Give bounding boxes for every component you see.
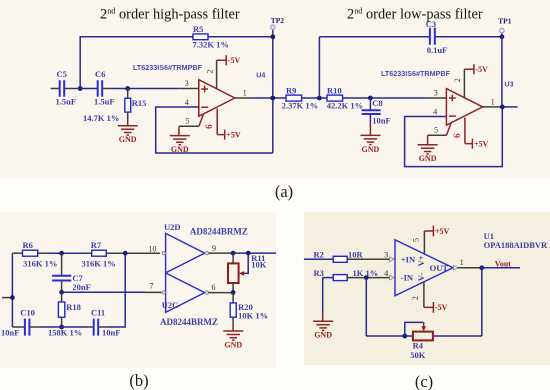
node junction R11 wiper — [246, 251, 251, 256]
ground U3 pin5 — [418, 145, 438, 163]
svg-text:316K 1%: 316K 1% — [82, 258, 116, 268]
ground R3 — [313, 321, 333, 339]
svg-text:10nF: 10nF — [372, 115, 390, 125]
node junction R11 top — [231, 251, 236, 256]
svg-text:AD8244BRMZ: AD8244BRMZ — [160, 317, 218, 327]
capacitor C6 — [98, 80, 103, 97]
svg-text:AD8244BRMZ: AD8244BRMZ — [190, 226, 248, 236]
pin circle U2D out — [205, 251, 208, 254]
node junction R4 wiper — [402, 334, 407, 339]
svg-text:5: 5 — [185, 116, 189, 125]
wire right vertical — [108, 253, 125, 327]
svg-text:10nF: 10nF — [1, 328, 19, 338]
svg-text:(c): (c) — [415, 372, 433, 390]
svg-text:10R: 10R — [348, 250, 364, 260]
svg-text:C3: C3 — [426, 19, 436, 29]
wire R3 to ground — [322, 278, 324, 314]
node junction U1 out — [479, 265, 484, 270]
svg-text:10: 10 — [149, 244, 157, 253]
svg-text:R6: R6 — [23, 240, 33, 250]
svg-text:-5V: -5V — [228, 56, 241, 65]
svg-text:158K 1%: 158K 1% — [48, 328, 82, 338]
svg-text:LT6233IS6#TRMPBF: LT6233IS6#TRMPBF — [133, 63, 203, 72]
capacitor C3 — [430, 28, 435, 45]
pin circle U2C out — [205, 291, 208, 294]
sheet background panel (c) — [304, 212, 550, 365]
svg-text:R9: R9 — [286, 85, 296, 95]
svg-text:+IN: +IN — [401, 254, 416, 264]
resistor R18 — [61, 292, 63, 302]
node junction U2C out — [231, 290, 236, 295]
ground R15 — [118, 126, 138, 144]
svg-text:7.32K 1%: 7.32K 1% — [193, 40, 229, 50]
potentiometer R11 — [232, 253, 234, 263]
svg-text:R5: R5 — [193, 24, 203, 34]
pin 1 output wire — [235, 97, 253, 99]
pin 5 stub — [199, 114, 204, 126]
svg-text:5: 5 — [411, 238, 420, 242]
svg-text:R3: R3 — [314, 268, 324, 278]
pin 2 stub U3 — [463, 69, 465, 97]
resistor R9 — [286, 95, 302, 101]
capacitor C11 — [87, 326, 93, 328]
svg-text:-5V: -5V — [476, 65, 489, 74]
wire R6-R7 — [47, 252, 85, 254]
svg-text:0.1uF: 0.1uF — [427, 45, 448, 55]
svg-text:(a): (a) — [275, 182, 293, 201]
svg-text:R2: R2 — [314, 250, 324, 260]
resistor R10 — [327, 95, 343, 101]
svg-text:+5V: +5V — [435, 227, 450, 236]
svg-text:2: 2 — [205, 70, 214, 74]
svg-text:OPA188AIDBVR: OPA188AIDBVR — [484, 240, 548, 250]
svg-text:7: 7 — [150, 282, 154, 291]
svg-text:6: 6 — [452, 133, 462, 138]
ground U4 pin5 — [170, 136, 190, 154]
PANEL B CONTENT — [1, 222, 276, 350]
svg-text:TP1: TP1 — [498, 16, 512, 25]
svg-text:LT6233IS6#TRMPBF: LT6233IS6#TRMPBF — [381, 69, 451, 78]
svg-text:5: 5 — [434, 125, 438, 134]
buffer U2C — [166, 273, 205, 313]
wire C6 to U4 — [111, 88, 180, 90]
svg-text:2.37K 1%: 2.37K 1% — [282, 100, 318, 110]
svg-text:6: 6 — [204, 124, 214, 129]
svg-text:1.5uF: 1.5uF — [56, 97, 77, 107]
svg-text:1.5uF: 1.5uF — [94, 97, 115, 107]
svg-text:-IN: -IN — [401, 273, 414, 283]
svg-text:+5V: +5V — [226, 130, 241, 139]
svg-text:V+: V+ — [416, 255, 426, 266]
svg-text:C10: C10 — [20, 307, 35, 317]
ground C8 — [360, 135, 380, 153]
wire output down — [481, 268, 483, 336]
svg-text:2nd order high-pass filter: 2nd order high-pass filter — [100, 6, 240, 22]
svg-text:42.2K 1%: 42.2K 1% — [327, 100, 363, 110]
svg-text:2: 2 — [453, 78, 462, 82]
wire top feedback HP — [80, 37, 273, 89]
wire Vout — [482, 267, 520, 269]
svg-text:4: 4 — [433, 107, 437, 116]
svg-text:316K 1%: 316K 1% — [23, 258, 57, 268]
node junction U3 out — [500, 105, 505, 110]
capacitor C8 — [369, 98, 371, 109]
svg-text:U2C: U2C — [162, 300, 179, 310]
pin 1 output wire U1 — [458, 267, 482, 269]
wire feedback bottom — [366, 335, 482, 337]
node junction C7 bottom — [59, 290, 64, 295]
wire R10 to U3 — [343, 97, 428, 99]
sheet background panel (b) — [0, 212, 276, 368]
svg-text:R7: R7 — [91, 240, 102, 250]
pin 5 stub U1 — [423, 231, 425, 254]
node junction LP feedback — [317, 96, 322, 101]
svg-text:10K 1%: 10K 1% — [238, 310, 268, 320]
svg-text:3: 3 — [185, 79, 189, 88]
potentiometer R4 — [413, 332, 433, 341]
pin circle U1 out — [454, 266, 459, 271]
svg-text:50K: 50K — [410, 350, 426, 360]
wire R18-C11 — [62, 326, 87, 328]
resistor R3 — [323, 277, 334, 279]
wire TP2 vertical — [272, 37, 274, 153]
pin 6 stub U3 — [464, 118, 466, 144]
node junction HP input — [78, 86, 83, 91]
op-amp U1 — [395, 240, 453, 296]
wire feedback left vertical — [365, 278, 367, 336]
wire LP feedback vertical — [318, 37, 320, 98]
resistor R6 — [12, 252, 22, 254]
svg-text:3: 3 — [384, 250, 388, 259]
power +5V U3 — [465, 139, 473, 149]
node junction right vertical top — [123, 251, 128, 256]
svg-text:1: 1 — [460, 258, 464, 267]
test point TP2 — [272, 29, 274, 36]
wire C10-R18 — [40, 326, 62, 328]
svg-text:14.7K 1%: 14.7K 1% — [83, 113, 119, 123]
svg-text:20nF: 20nF — [72, 282, 90, 292]
wire B input stub — [2, 297, 12, 299]
svg-text:4: 4 — [384, 269, 388, 278]
power +5V U1 — [424, 226, 433, 237]
pin 1 output wire U3 — [483, 106, 503, 108]
wire B left vertical — [11, 253, 13, 327]
node junction feedback tap — [364, 275, 369, 280]
resistor R20 — [232, 293, 234, 303]
svg-text:V-: V- — [416, 273, 426, 282]
test point TP1 — [501, 33, 503, 37]
power -5V U3 — [464, 64, 474, 74]
svg-text:C5: C5 — [57, 69, 67, 79]
svg-text:U4: U4 — [256, 71, 265, 80]
wire C5-C6 — [73, 88, 98, 90]
svg-text:TP2: TP2 — [271, 16, 285, 25]
capacitor C5 — [51, 88, 60, 90]
wire row2 to U2C — [62, 291, 145, 293]
svg-text:R15: R15 — [132, 98, 147, 108]
svg-text:10nF: 10nF — [102, 328, 120, 338]
svg-text:2nd order low-pass filter: 2nd order low-pass filter — [347, 6, 483, 22]
node junction R18 bottom — [59, 325, 64, 330]
svg-text:10K: 10K — [251, 260, 267, 270]
wire U2C out — [209, 292, 234, 294]
pin circle U2C in — [162, 291, 165, 294]
svg-text:1: 1 — [243, 88, 247, 97]
svg-text:+5V: +5V — [474, 139, 489, 148]
node junction TP1 — [500, 34, 505, 39]
power +5V U4 — [217, 130, 225, 140]
node junction C7 top — [59, 251, 64, 256]
resistor R5 — [193, 34, 208, 40]
pin circle U2D in — [162, 252, 165, 255]
wire U2D out — [209, 252, 234, 254]
resistor R2 — [304, 258, 333, 260]
svg-text:3: 3 — [434, 88, 438, 97]
svg-text:6: 6 — [212, 283, 216, 292]
wire TP1 vertical — [501, 37, 503, 107]
svg-text:Vout: Vout — [495, 259, 511, 268]
pin 2 stub U1 — [423, 282, 425, 308]
pin 2 stub — [216, 60, 218, 88]
pin circle U1 +in — [390, 257, 395, 262]
node junction C8 — [368, 96, 373, 101]
node junction B input — [10, 295, 15, 300]
svg-text:C11: C11 — [91, 307, 105, 317]
capacitor C7 — [61, 253, 63, 275]
svg-text:R18: R18 — [66, 302, 81, 312]
svg-text:OUT: OUT — [430, 263, 449, 273]
resistor R15 — [127, 89, 129, 99]
ground R20 — [223, 331, 243, 349]
node junction U4 out — [270, 96, 275, 101]
sheet background panel (a) — [0, 0, 550, 178]
svg-text:(b): (b) — [129, 371, 148, 390]
buffer U2D — [166, 233, 205, 273]
wire U3 feedback loop — [405, 107, 503, 167]
pin circle U1 -in — [390, 275, 395, 280]
pin 5 stub U3 — [447, 123, 452, 135]
svg-text:C6: C6 — [95, 69, 105, 79]
PANEL C CONTENT — [304, 226, 548, 360]
svg-text:C8: C8 — [372, 98, 382, 108]
svg-text:-5V: -5V — [435, 303, 448, 312]
node junction R15 — [125, 86, 130, 91]
svg-text:U2D: U2D — [164, 222, 181, 232]
svg-text:4: 4 — [185, 98, 189, 107]
svg-text:9: 9 — [212, 244, 216, 253]
svg-text:U3: U3 — [504, 80, 513, 89]
power -5V U4 — [217, 55, 227, 65]
svg-text:2: 2 — [411, 296, 420, 300]
node junction TP2 — [270, 34, 275, 39]
resistor R7 — [85, 252, 92, 254]
svg-text:R10: R10 — [327, 85, 342, 95]
pin 6 stub — [216, 109, 218, 135]
capacitor C10 — [12, 326, 24, 328]
wire top feedback LP — [319, 36, 502, 38]
PANEL A CONTENT — [51, 6, 518, 166]
wire U4 feedback loop — [156, 107, 273, 153]
wire R9-R10 — [302, 97, 327, 99]
power -5V U1 — [424, 302, 434, 313]
svg-text:1: 1 — [491, 97, 495, 106]
